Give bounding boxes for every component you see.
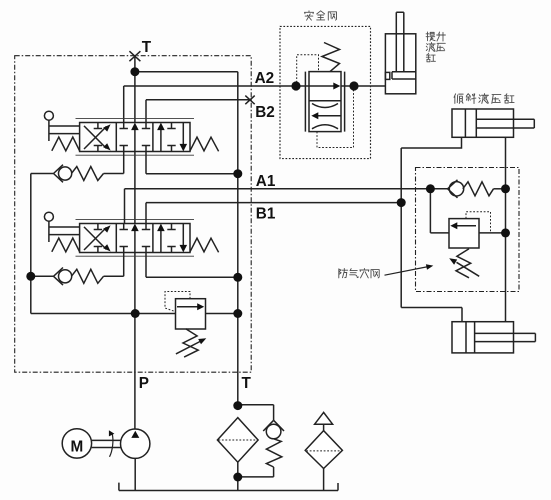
svg-text:M: M (71, 438, 84, 455)
svg-text:B2: B2 (255, 104, 275, 121)
svg-text:P: P (139, 375, 149, 392)
svg-text:B1: B1 (256, 206, 276, 223)
svg-text:A1: A1 (256, 173, 276, 190)
svg-text:T: T (242, 375, 252, 392)
svg-text:T: T (142, 39, 152, 56)
svg-text:A2: A2 (255, 70, 275, 87)
